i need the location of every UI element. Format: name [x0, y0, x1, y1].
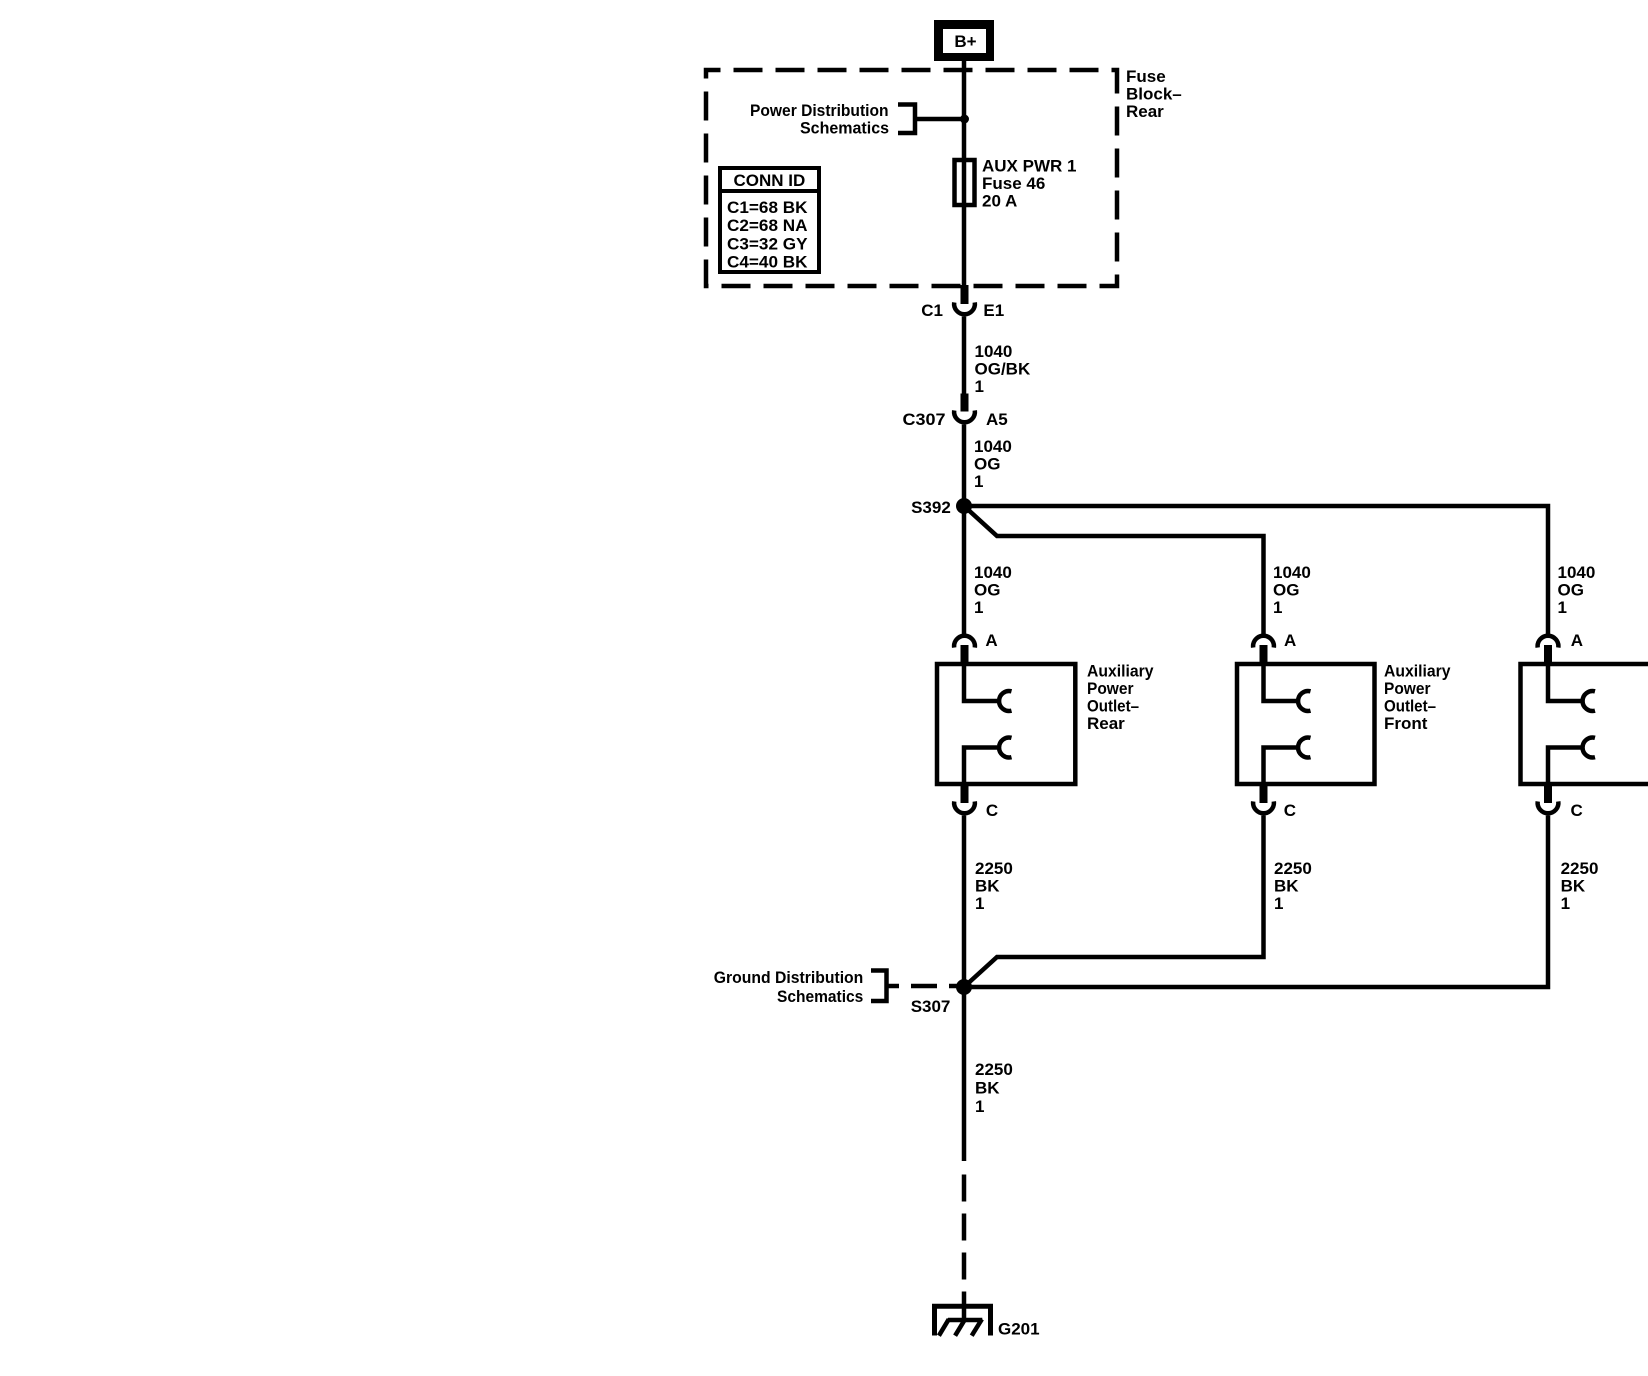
wire S392 diagonal to middle branch [964, 506, 1264, 634]
connector C third: female arc [1538, 801, 1559, 813]
connector A third outlet: male pin [1544, 645, 1552, 663]
svg-text:Outlet–: Outlet– [1087, 697, 1139, 716]
svg-text:OG: OG [974, 581, 1000, 600]
svg-text:1040: 1040 [974, 563, 1012, 582]
svg-text:C: C [1571, 801, 1583, 820]
connector C third: male pin [1544, 786, 1552, 803]
svg-text:C3=32 GY: C3=32 GY [727, 234, 808, 253]
wire C rear down to S307 [962, 816, 967, 988]
svg-text:1040: 1040 [1558, 563, 1596, 582]
svg-text:BK: BK [975, 1079, 1000, 1098]
wire label 1040 OG 1 [974, 437, 1012, 491]
svg-text:1040: 1040 [974, 437, 1012, 456]
svg-text:Rear: Rear [1126, 102, 1164, 121]
svg-text:C4=40 BK: C4=40 BK [727, 253, 808, 272]
wire bracket to main line [915, 117, 964, 122]
svg-text:1: 1 [1558, 598, 1567, 617]
svg-text:OG: OG [974, 455, 1000, 474]
wire label 2250 BK 1 main [975, 859, 1013, 913]
svg-text:Schematics: Schematics [800, 119, 889, 138]
svg-text:C: C [986, 801, 998, 820]
svg-text:OG: OG [1273, 581, 1299, 600]
svg-text:C2=68 NA: C2=68 NA [727, 216, 808, 235]
svg-text:OG/BK: OG/BK [975, 360, 1031, 379]
bracket for ground distribution reference [871, 971, 887, 1002]
connector C1/E1 male pin [961, 285, 969, 304]
svg-text:1: 1 [1561, 894, 1570, 913]
wire S392 to right branch [964, 506, 1548, 634]
fuse block rear dashed box [706, 70, 1117, 286]
svg-text:Ground Distribution: Ground Distribution [714, 968, 864, 987]
svg-text:1: 1 [1274, 894, 1283, 913]
auxiliary power outlet front label [1384, 662, 1451, 734]
connector C front: female arc [1253, 801, 1274, 813]
connector C rear: male pin [961, 786, 969, 803]
wire C third down and left to S307 [964, 816, 1548, 988]
svg-text:S307: S307 [911, 997, 951, 1016]
wire label 2250 BK 1 middle [1274, 859, 1312, 913]
wire label 2250 BK 1 right [1561, 859, 1599, 913]
svg-text:BK: BK [975, 877, 1000, 896]
svg-text:A: A [1284, 631, 1296, 650]
svg-text:Auxiliary: Auxiliary [1087, 662, 1154, 681]
svg-text:20 A: 20 A [982, 192, 1017, 211]
wire label 1040 OG 1 main branch [974, 563, 1012, 617]
svg-text:1: 1 [1273, 598, 1282, 617]
svg-text:1: 1 [975, 894, 984, 913]
svg-text:OG: OG [1558, 581, 1584, 600]
connector C front: male pin [1260, 786, 1268, 803]
rear outlet internal circuit [964, 663, 1012, 786]
svg-text:E1: E1 [983, 301, 1004, 320]
fuse block label [1126, 67, 1182, 121]
svg-text:Front: Front [1384, 714, 1428, 733]
splice S392 [956, 498, 972, 514]
battery feed B+ symbol [934, 20, 994, 61]
svg-text:B+: B+ [954, 32, 976, 51]
svg-text:C1=68 BK: C1=68 BK [727, 198, 808, 217]
front outlet internal circuit [1264, 663, 1311, 786]
svg-text:Rear: Rear [1087, 714, 1125, 733]
svg-text:G201: G201 [998, 1320, 1040, 1339]
auxiliary power outlet front box [1237, 664, 1375, 784]
auxiliary power outlet third box (clipped) [1521, 664, 1648, 784]
ground G201 symbol [935, 1306, 991, 1335]
bracket for power distribution reference [898, 105, 915, 134]
svg-text:Fuse 46: Fuse 46 [982, 174, 1045, 193]
third outlet internal circuit [1548, 663, 1595, 786]
svg-text:AUX PWR 1: AUX PWR 1 [982, 157, 1076, 176]
connector A front outlet: female arc [1253, 636, 1274, 648]
svg-text:1: 1 [974, 598, 983, 617]
svg-text:C307: C307 [903, 410, 946, 429]
svg-text:C: C [1284, 801, 1296, 820]
svg-text:1: 1 [974, 472, 983, 491]
connector C rear: female arc [954, 801, 975, 813]
auxiliary power outlet rear box [937, 664, 1075, 784]
wire S392 down main branch [962, 506, 967, 634]
svg-text:Fuse: Fuse [1126, 67, 1166, 86]
connector C307/A5 female arc [954, 410, 975, 422]
svg-text:A5: A5 [986, 410, 1008, 429]
svg-text:Schematics: Schematics [777, 987, 863, 1006]
wire label 1040 OG 1 right branch [1558, 563, 1596, 617]
svg-text:Power: Power [1384, 679, 1431, 698]
wire label 2250 BK 1 bottom [975, 1060, 1013, 1116]
wire C1 to C307 [962, 317, 967, 395]
svg-text:1: 1 [975, 1097, 984, 1116]
svg-text:1: 1 [975, 377, 984, 396]
connector A rear outlet: male pin [961, 645, 969, 663]
svg-text:1040: 1040 [975, 342, 1013, 361]
conn id table [720, 168, 819, 272]
svg-text:S392: S392 [911, 498, 951, 517]
connector C1/E1 female arc [954, 302, 975, 314]
splice S307 [956, 979, 972, 995]
svg-text:2250: 2250 [1274, 859, 1312, 878]
wire S307 down [962, 987, 967, 1161]
svg-text:BK: BK [1561, 877, 1586, 896]
svg-text:A: A [985, 631, 997, 650]
wire B+ down to fuse [962, 61, 967, 288]
svg-text:2250: 2250 [975, 859, 1013, 878]
svg-text:Outlet–: Outlet– [1384, 697, 1436, 716]
wire label 1040 OG 1 middle branch [1273, 563, 1311, 617]
dashed wire down to ground [962, 1175, 967, 1320]
auxiliary power outlet rear label [1087, 662, 1154, 734]
svg-text:Block–: Block– [1126, 85, 1182, 104]
svg-text:1040: 1040 [1273, 563, 1311, 582]
svg-text:Power Distribution: Power Distribution [750, 101, 889, 120]
svg-text:2250: 2250 [975, 1060, 1013, 1079]
svg-text:Power: Power [1087, 679, 1134, 698]
wire C front down and left to S307 [964, 816, 1264, 988]
connector C307/A5 male pin [961, 394, 969, 412]
svg-text:BK: BK [1274, 877, 1299, 896]
power distribution schematics reference label [750, 101, 889, 138]
svg-text:C1: C1 [921, 301, 943, 320]
svg-text:CONN ID: CONN ID [734, 171, 806, 190]
dashed wire bracket to S307 [887, 984, 900, 989]
connector A front outlet: male pin [1260, 645, 1268, 663]
svg-text:A: A [1571, 631, 1583, 650]
wire label 1040 OG/BK 1 [975, 342, 1031, 396]
connector A rear outlet: female arc [954, 636, 975, 648]
wire C307 to S392 [962, 425, 967, 507]
ground distribution schematics reference label [714, 968, 864, 1006]
connector A third outlet: female arc [1538, 636, 1559, 648]
fuse AUX PWR 1 Fuse 46 20 A [955, 157, 1077, 211]
svg-text:2250: 2250 [1561, 859, 1599, 878]
svg-text:Auxiliary: Auxiliary [1384, 662, 1451, 681]
junction dot at tap [960, 115, 969, 124]
